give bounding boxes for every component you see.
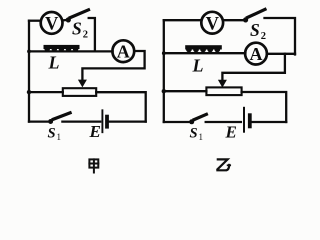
svg-text:A: A [117, 42, 130, 62]
voltmeter V (乙) [201, 12, 223, 34]
rheostat body (甲) [63, 88, 96, 96]
wire: from voltmeter to switch pivot (乙) [223, 19, 243, 21]
switch S2 pivot dot (甲) [66, 17, 71, 22]
switch S1 blade (乙) [194, 114, 206, 119]
svg-text:E: E [225, 123, 237, 142]
junction dot at left bus / rheostat row (甲) [27, 90, 31, 94]
inductor L coil (乙) [185, 45, 222, 52]
switch S1 pivot dot (甲) [48, 119, 53, 124]
switch S1 pivot dot (乙) [189, 119, 194, 124]
svg-text:E: E [89, 122, 101, 141]
svg-text:1: 1 [57, 132, 62, 142]
junction dot at left bus / L row (乙) [162, 51, 166, 55]
wire: second row from left bus through L to ammeter (乙) [164, 52, 246, 54]
wire: left vertical bus (甲) [28, 21, 30, 122]
inductor L coil (甲) [44, 45, 80, 52]
svg-text:S: S [72, 18, 82, 38]
svg-text:S: S [48, 126, 56, 142]
svg-text:S: S [190, 126, 198, 142]
svg-text:L: L [192, 56, 204, 76]
svg-text:L: L [48, 53, 60, 73]
switch S2 blade (甲) [70, 10, 88, 18]
battery E short plate (甲) [105, 117, 109, 127]
wire: top segment right and corner down to ammeter row (乙) [265, 18, 296, 55]
wire: rheostat right terminal down to bottom wire (甲) [96, 92, 146, 121]
wire: bottom segment right (乙) [252, 121, 287, 123]
switch S2 pivot dot (乙) [243, 17, 248, 22]
label S2 (甲) [72, 18, 88, 40]
battery E long plate (甲) [101, 110, 103, 132]
wire: left bus to rheostat left terminal (乙) [164, 90, 207, 92]
wire: top wire left segment to voltmeter (乙) [164, 19, 201, 21]
wire: bottom segment right (甲) [109, 120, 146, 122]
wire: top wire left segment to voltmeter (甲) [29, 20, 40, 22]
ammeter A (甲) [112, 40, 134, 62]
label 乙 (caption, drawn glyph) [217, 159, 230, 170]
wire: top-right corner down to L/A row (甲) [89, 18, 95, 51]
battery E short plate (乙) [248, 115, 252, 126]
svg-text:V: V [45, 15, 59, 35]
wire: ammeter output to right bus (乙) [267, 53, 295, 55]
svg-text:A: A [250, 44, 263, 64]
svg-text:S: S [250, 20, 260, 40]
label S2 (乙) [250, 20, 266, 42]
switch S2 blade (乙) [247, 9, 265, 17]
label 甲 (caption, drawn glyph) [89, 159, 98, 172]
svg-text:V: V [206, 14, 220, 34]
rheostat wiper arrow head (甲) [78, 80, 87, 88]
wire: bottom segment middle (甲) [62, 120, 100, 122]
wire: branch from ammeter row down-left to rheostat wiper (乙) [222, 54, 285, 81]
svg-text:2: 2 [261, 31, 266, 42]
switch S1 blade (甲) [53, 113, 70, 120]
junction dot at left bus / L row (甲) [27, 50, 31, 54]
label S1 (乙) [190, 126, 204, 143]
wire: bottom segment left (甲) [29, 120, 47, 122]
svg-text:1: 1 [199, 132, 204, 142]
battery E long plate (乙) [243, 108, 245, 132]
ammeter A (乙) [245, 43, 267, 65]
svg-text:2: 2 [83, 29, 88, 40]
wire: left vertical bus (乙) [163, 20, 165, 122]
label S1 (甲) [48, 126, 62, 143]
wire: ammeter output loop to rheostat wiper (甲) [82, 51, 144, 80]
wire: bottom segment middle (乙) [206, 121, 241, 123]
junction dot at left bus / rheostat row (乙) [162, 89, 166, 93]
rheostat body (乙) [206, 87, 241, 95]
wire: second row from left bus through L to ammeter (甲) [29, 50, 113, 52]
wire: left bus to rheostat left terminal (甲) [29, 91, 63, 93]
wire: bottom segment left (乙) [164, 121, 190, 123]
wire: stub from voltmeter to switch pivot (甲) [63, 19, 67, 22]
rheostat wiper arrow head (乙) [218, 80, 227, 88]
voltmeter V (甲) [41, 12, 63, 35]
wire: rheostat right terminal down to bottom wire (乙) [242, 92, 287, 122]
